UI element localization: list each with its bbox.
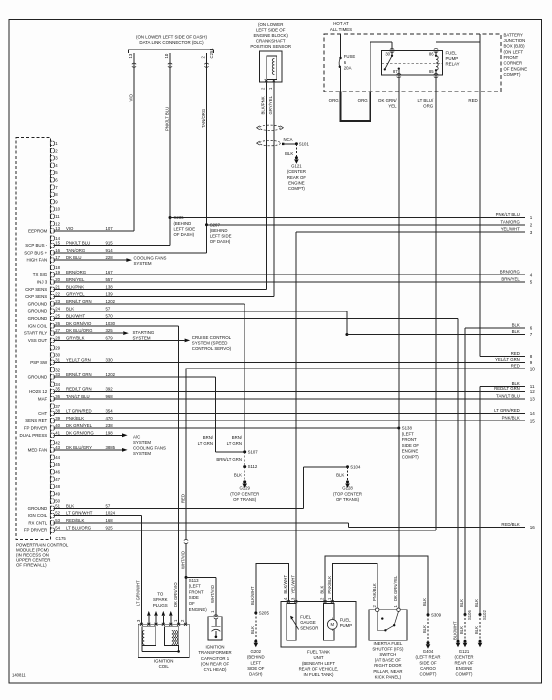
wire BRN/LT GRN circuit 1202 (PCM 23 to splice S107) [54,303,245,305]
fuel gauge sensor [287,604,296,641]
svg-text:OF TRANS): OF TRANS) [336,497,360,502]
svg-text:914: 914 [106,248,114,253]
PCM pin 13 EEPROM [28,226,113,233]
PCM pin 5 [50,170,58,175]
svg-text:OF DASH): OF DASH) [210,239,231,244]
ignition coil pin 1 terminal [177,623,180,626]
svg-text:19: 19 [55,270,60,275]
svg-text:557: 557 [106,277,114,282]
PCM pin 16 SCP BUS + [24,248,113,255]
svg-text:(BEHIND: (BEHIND [174,221,192,226]
CKP pin 2 terminal [265,79,268,82]
svg-text:(ON LEFT: (ON LEFT [504,49,524,54]
svg-text:30: 30 [385,51,390,56]
svg-text:FP DRIVER: FP DRIVER [24,426,47,431]
wire DK GRN/YEL circuit 238 (PCM 40 to splice S138) [54,427,399,429]
svg-text:BRN/LT GRN: BRN/LT GRN [216,457,242,462]
svg-text:LEFT SIDE: LEFT SIDE [174,226,196,231]
splice S106 [464,613,467,616]
svg-text:YEL/LT GRN: YEL/LT GRN [495,357,520,362]
svg-text:ALL TIMES: ALL TIMES [330,27,352,32]
svg-text:IGN COIL: IGN COIL [28,323,48,328]
PCM pin 18 [50,265,60,270]
relay pin 86 [434,48,438,52]
svg-text:(ON LOWER LEFT SIDE OF DASH): (ON LOWER LEFT SIDE OF DASH) [136,35,207,40]
svg-text:LEFT SIDE: LEFT SIDE [210,234,232,239]
svg-text:BLK/WHT: BLK/WHT [66,314,85,319]
svg-text:325: 325 [106,328,114,333]
svg-text:107: 107 [106,226,114,231]
svg-text:LT GRN/RED: LT GRN/RED [494,408,520,413]
svg-text:140811: 140811 [12,673,26,678]
svg-text:LT GRN/WHT: LT GRN/WHT [136,580,141,606]
svg-text:RED/LT GRN: RED/LT GRN [494,386,520,391]
svg-text:BLK: BLK [459,599,464,607]
svg-text:16: 16 [530,525,536,530]
ignition coil transformer windings [142,627,156,646]
svg-text:20: 20 [55,277,60,282]
svg-text:PNK/BLK: PNK/BLK [66,416,84,421]
svg-text:BLK/WHT: BLK/WHT [452,621,457,640]
svg-text:40: 40 [55,423,60,428]
svg-text:TAN/LT BLU: TAN/LT BLU [496,393,520,398]
svg-text:BLK: BLK [66,306,74,311]
svg-text:85: 85 [429,69,434,74]
svg-text:57: 57 [106,306,111,311]
PCM pin 4 [50,163,58,168]
PCM pin 46 [50,470,60,475]
wire BLK (S102 to ground G121) [479,615,481,641]
svg-text:23: 23 [55,299,60,304]
svg-text:S309: S309 [431,612,442,617]
wire PNK/LT BLU circuit 915 (DLC 10 to splice S236 to PCM 15) [169,53,171,246]
wire BRN/ORG circuit 167 (PCM 19 to right edge row 4) [54,274,526,276]
PCM pin 52 IGN COIL [28,511,116,518]
svg-text:ENGINE BLOCK): ENGINE BLOCK) [253,33,288,38]
svg-text:3885: 3885 [106,445,116,450]
svg-text:COMPT): COMPT) [504,72,522,77]
svg-text:22: 22 [55,292,60,297]
splice S107 [243,450,246,453]
svg-text:BRN/LT GRN: BRN/LT GRN [66,299,92,304]
svg-text:DK GRN/: DK GRN/ [378,98,397,103]
svg-text:ORG: ORG [423,104,434,109]
svg-text:(CENTER: (CENTER [454,655,473,660]
relay pin 30 [390,48,394,52]
svg-text:(LEFT: (LEFT [402,431,414,436]
right edge wire 2 TAN/ORG [501,219,533,227]
svg-text:IGN COIL: IGN COIL [28,513,48,518]
wire NCA shield drain to splice S101 [282,143,284,145]
svg-text:(AT BASE OF: (AT BASE OF [375,658,402,663]
svg-text:14: 14 [530,411,536,416]
svg-text:PSP SW: PSP SW [30,360,48,365]
svg-text:SYSTEM: SYSTEM [133,451,151,456]
svg-text:REAR OF: REAR OF [454,660,473,665]
PCM pin 41 DUAL PRESS [20,430,114,437]
svg-text:DK BLU: DK BLU [66,255,82,260]
PCM pin 11 [50,214,60,219]
PCM pin 32 [50,367,60,372]
svg-text:S205: S205 [259,611,270,616]
wire GRY/BLK circuit 679 (PCM 28 to cruise control system) [54,339,185,341]
svg-text:LT BLU/: LT BLU/ [417,98,433,103]
svg-text:1202: 1202 [106,372,116,377]
PCM pin 34 [50,382,60,387]
svg-text:S101: S101 [299,141,310,146]
svg-text:VIO: VIO [129,93,134,101]
wire BLK/PNK circuit 138 (CKP 2 to PCM 21) [265,82,267,289]
svg-text:GRY/YEL: GRY/YEL [268,95,273,114]
splice S101 [295,142,298,145]
PCM pin 38 CHT [38,409,113,416]
svg-text:198: 198 [106,430,114,435]
svg-text:TAN/ORG: TAN/ORG [501,219,521,224]
svg-text:INERTIA FUEL: INERTIA FUEL [373,641,402,646]
svg-text:REAR OF: REAR OF [287,175,306,180]
ground G121 lead BLK/WHT arrow [457,640,460,643]
right edge wire 9 YEL/LT GRN [495,357,533,365]
wire YEL/WHT (fuel gauge sender to right edge row 3) [296,231,525,233]
svg-text:BRN/LT GRN: BRN/LT GRN [66,372,92,377]
crankshaft position sensor CKP body [260,51,283,82]
svg-text:24: 24 [55,306,60,311]
svg-text:SCP BUS +: SCP BUS + [24,250,47,255]
svg-text:BLK/WHT: BLK/WHT [283,575,288,594]
svg-text:CARGO: CARGO [420,666,436,671]
PCM pin 50 [50,499,60,504]
svg-text:OF ENGINE: OF ENGINE [504,66,528,71]
ground G128 (top center of trans) [346,480,349,483]
svg-text:IN FUEL TANK): IN FUEL TANK) [303,672,334,677]
PCM pin 53 RX CNTL [28,518,113,525]
wire PNK/LT BLU (S236 to right edge row 1) [170,217,525,219]
wire LT GRN/WHT circuit 1024 (PCM 52 to ignition coil 3) [54,515,142,517]
svg-text:DK BLU/ORG: DK BLU/ORG [66,328,93,333]
svg-text:FUEL TANK: FUEL TANK [307,650,330,655]
svg-text:IGNITION: IGNITION [205,644,224,649]
PCM pin 19 TX SIG [33,270,113,277]
svg-text:FRONT: FRONT [402,437,417,442]
svg-text:LT GRN/WHT: LT GRN/WHT [66,511,93,516]
svg-text:570: 570 [106,314,114,319]
svg-text:86: 86 [429,51,434,56]
fuel tank unit box [281,602,356,647]
svg-text:FRONT: FRONT [189,589,204,594]
svg-text:SIDE OF: SIDE OF [402,443,420,448]
svg-text:ENGINE: ENGINE [456,666,473,671]
svg-text:(TOP CENTER: (TOP CENTER [333,491,362,496]
svg-text:VIO: VIO [66,226,74,231]
svg-text:M: M [331,622,335,627]
svg-text:NCA: NCA [283,137,292,142]
right edge wire 3 YEL/WHT [501,227,533,235]
wire DK GRN/VIO circuit 1030 (PCM 26 to ignition coil 1) [54,325,179,327]
svg-text:54: 54 [55,525,60,530]
svg-text:354: 354 [106,409,114,414]
svg-text:1024: 1024 [106,511,116,516]
battery junction box BJB dashed box [324,34,501,92]
svg-text:MED FAN: MED FAN [28,447,48,452]
relay pin 87 [398,67,400,69]
PCM pin 8 [50,192,58,197]
right edge wire 5 BRN/YEL [501,277,532,285]
splice S309 [427,613,430,616]
ignition coil internal common with junction dot [141,646,143,652]
svg-text:BLK: BLK [459,626,464,634]
svg-text:679: 679 [106,336,114,341]
wire RED/BLK circuit 168 (PCM 53 to right edge row 16) [54,522,349,524]
svg-text:27: 27 [55,328,60,333]
ground G121 (center rear of engine compt) [295,156,298,159]
svg-text:28: 28 [55,336,60,341]
svg-text:RED: RED [468,98,477,103]
svg-text:BLK: BLK [422,598,427,606]
svg-text:LEFT SIDE OF: LEFT SIDE OF [256,27,286,32]
svg-text:POSITION SENSOR: POSITION SENSOR [250,44,291,49]
svg-text:BLK/WHT: BLK/WHT [250,586,255,605]
svg-text:RX CNTL: RX CNTL [28,520,47,525]
wire BLK (junction to right edge row 7) [347,334,525,336]
svg-text:IGNITION: IGNITION [154,658,174,663]
PCM pin 3 [50,156,58,161]
svg-text:TO: TO [157,591,164,596]
svg-text:G404: G404 [423,649,434,654]
ground G404 (left rear side of cargo compt) [427,641,430,644]
wire BLK (S104 to ground G128) [347,467,349,481]
svg-text:OF FIREWALL): OF FIREWALL) [16,563,47,568]
svg-text:PLUGS: PLUGS [153,603,168,608]
svg-text:CRANKSHAFT: CRANKSHAFT [256,39,286,44]
svg-text:S112: S112 [248,464,258,469]
svg-text:GROUND: GROUND [28,316,48,321]
splice S112 [243,465,246,468]
svg-text:FUEL: FUEL [340,618,352,623]
svg-text:S107: S107 [248,450,259,455]
svg-text:HO2S 12: HO2S 12 [29,389,48,394]
splice S236 [169,216,172,219]
twisted pair mark upper [260,125,281,130]
inline connector RED to WHT/VIO [184,539,188,543]
junction dot row 7 [345,333,348,336]
svg-text:470: 470 [106,416,114,421]
svg-text:138: 138 [106,284,114,289]
svg-text:S106: S106 [467,610,472,620]
splice S205 [254,611,257,614]
svg-text:SWITCH: SWITCH [379,652,396,657]
svg-text:47: 47 [55,477,60,482]
svg-text:S104: S104 [350,464,361,469]
IFS pin 2 terminal [376,608,379,611]
wire DK GRN/ORG circuit 198 (PCM 41 to A/C system) [54,434,123,436]
svg-text:SHUTOFF (IFS): SHUTOFF (IFS) [372,647,404,652]
wire BLK (S112 to ground G129) [244,467,246,481]
wire LT GRN/RED circuit 354 (PCM 38 to right edge row 14) [54,412,526,414]
svg-text:COMPT): COMPT) [420,672,438,677]
PCM pin 27 START RLY [24,328,113,335]
PCM pin 36 MAF [38,394,113,401]
svg-text:1202: 1202 [106,299,116,304]
wire BLK/WHT (fuel tank 4 to splice S205) [256,564,288,613]
svg-text:925: 925 [106,525,114,530]
svg-text:(TOP CENTER: (TOP CENTER [230,491,259,496]
svg-text:A/C: A/C [133,434,140,439]
svg-text:38: 38 [55,409,60,414]
wire WHT/VIO (connector to splice S113) [185,543,187,578]
svg-text:GROUND: GROUND [28,301,48,306]
wire ORG fuse output loop to relay 30 [340,68,342,92]
svg-text:PILLAR, NEAR: PILLAR, NEAR [373,669,402,674]
inertia fuel shutoff IFS switch box [369,610,407,641]
PCM pin 17 HIGH FAN [26,255,113,262]
PCM pin 47 [50,477,60,482]
PCM pin 33 GROUND [28,372,116,379]
wire BLK (right edge row 6 to splice S106) [465,327,525,329]
PCM pin 7 [50,185,58,190]
svg-text:BRN/ORG: BRN/ORG [500,269,521,274]
PCM pin 23 GROUND [28,299,116,306]
svg-text:BRN/ORG: BRN/ORG [66,270,87,275]
svg-text:LT BLU/ORG: LT BLU/ORG [66,525,92,530]
relay switch contact [385,56,392,69]
PCM pin 44 [50,455,60,460]
svg-text:CHT: CHT [38,411,47,416]
svg-text:(CENTER: (CENTER [287,169,306,174]
svg-text:915: 915 [106,241,114,246]
ignition transformer capacitor 1 box [208,617,222,640]
svg-text:25: 25 [55,314,60,319]
svg-text:TAN/LT BLU: TAN/LT BLU [66,394,90,399]
svg-text:RED/BLK: RED/BLK [501,522,520,527]
PCM pin 39 SENS RET [25,416,113,423]
svg-text:(ON REAR OF: (ON REAR OF [201,662,230,667]
svg-text:PUMP: PUMP [446,56,459,61]
svg-text:10: 10 [164,53,169,58]
wire YEL/LT GRN circuit 330 (PCM 31 to right edge row 9) [54,361,526,363]
right edge wire 12 RED/LT GRN [494,386,535,394]
PCM pin 22 CKP SENS [25,292,113,299]
svg-text:BLK: BLK [234,472,242,477]
svg-text:46: 46 [55,470,60,475]
DLC pin 2 terminal [204,63,208,67]
svg-text:MAF: MAF [38,396,48,401]
svg-text:TX SIG: TX SIG [33,272,48,277]
ignition coil pin 2 terminal [184,623,187,626]
PCM pin 29 [50,345,60,350]
svg-text:12: 12 [530,389,536,394]
PCM pin 40 FP DRIVER [24,423,113,430]
PCM pin 31 PSP SW [30,357,113,364]
svg-text:OF DASH): OF DASH) [174,232,195,237]
svg-text:BLK: BLK [320,585,325,593]
PCM pin 54 FP DRIVER [24,525,113,532]
wire BLK (S101 to ground G121) [295,144,297,157]
wire LT BLU/ORG circuit 925 (relay 85 to PCM 54) [435,75,437,530]
svg-text:S138: S138 [402,426,413,431]
right edge wire 8 RED [511,351,533,359]
svg-text:43: 43 [55,445,60,450]
svg-text:SPARK: SPARK [153,597,168,602]
svg-text:36: 36 [55,394,60,399]
fuel tank pin 3 terminal [294,600,297,603]
wire battery feed to relay 86 and RED output [479,34,481,92]
svg-text:UNIT: UNIT [313,655,323,660]
PCM pin 49 [50,491,60,496]
svg-text:DK GRN/YEL: DK GRN/YEL [393,575,398,601]
fuel tank pin 4 terminal [287,600,290,603]
wire DK BLU/ORG circuit 325 (PCM 27 to starting system) [54,332,124,334]
svg-text:TRANSFORMER: TRANSFORMER [198,650,231,655]
svg-text:BATTERY: BATTERY [504,32,524,37]
svg-text:WHT/VIO: WHT/VIO [180,550,185,569]
splice S104 [346,465,349,468]
svg-text:17: 17 [55,255,60,260]
svg-text:C251: C251 [209,48,214,59]
PCM pin 24 GROUND [28,306,111,313]
powertrain control module PCM connector dashed box [16,138,51,540]
svg-text:GROUND: GROUND [28,309,48,314]
fuel pump relay box [382,51,443,76]
svg-text:DATA LINK CONNECTOR (DLC): DATA LINK CONNECTOR (DLC) [139,40,204,45]
PCM pin 6 [50,178,58,183]
svg-text:BRN/YEL: BRN/YEL [66,277,85,282]
svg-text:RED: RED [180,494,185,503]
svg-text:BLK: BLK [474,626,479,634]
svg-text:G121: G121 [291,163,302,168]
svg-text:SIDE OF: SIDE OF [247,666,265,671]
PCM pin 10 [50,207,60,212]
right edge wire 16 RED/BLK [501,522,535,530]
svg-text:BLK: BLK [285,151,293,156]
svg-text:21: 21 [55,284,60,289]
svg-text:ENGINE): ENGINE) [189,607,207,612]
wire WHT/VIO (S113 to ignition coil 2) [185,577,187,624]
PCM pin 12 [50,221,60,226]
wire BLK (fuel pump 2 to splice S309) [325,556,428,614]
svg-text:PNK/BLK: PNK/BLK [502,415,520,420]
svg-text:10: 10 [530,366,536,371]
fuel pump motor [324,604,335,641]
svg-text:BLK: BLK [512,323,520,328]
svg-text:FUEL: FUEL [446,50,458,55]
wire RED (BJB to right edge row 8) [479,92,481,357]
svg-text:RIGHT DOOR: RIGHT DOOR [374,663,401,668]
svg-text:20A: 20A [344,65,352,70]
right edge wire 15 PNK/BLK [502,415,536,423]
svg-text:RED/BLK: RED/BLK [66,518,85,523]
svg-text:51: 51 [55,503,60,508]
svg-text:26: 26 [55,321,60,326]
svg-text:35: 35 [55,387,60,392]
wire LT BLU/ORG circuit 925 (PCM 54 to relay 85 drop) [54,529,437,531]
svg-text:31: 31 [55,357,60,362]
svg-text:(ON LOWER: (ON LOWER [258,22,283,27]
PCM pin 14 [50,236,60,241]
svg-text:SENSOR: SENSOR [300,626,318,631]
svg-text:JUNCTION: JUNCTION [504,38,526,43]
svg-text:CRUISE CONTROL: CRUISE CONTROL [192,335,232,340]
PCM pin 42 [50,440,60,445]
svg-text:DK BLU/GRY: DK BLU/GRY [66,445,92,450]
svg-text:CAPACITOR 1: CAPACITOR 1 [201,656,230,661]
svg-text:GRY/BLK: GRY/BLK [66,336,85,341]
wire TAN/ORG (S207 to right edge row 2) [207,224,526,226]
ground G129 (top center of trans) [243,480,246,483]
PCM pin 51 GROUND [28,503,111,510]
svg-text:52: 52 [55,511,60,516]
svg-text:GROUND: GROUND [28,374,48,379]
svg-text:SYSTEM: SYSTEM [134,261,152,266]
